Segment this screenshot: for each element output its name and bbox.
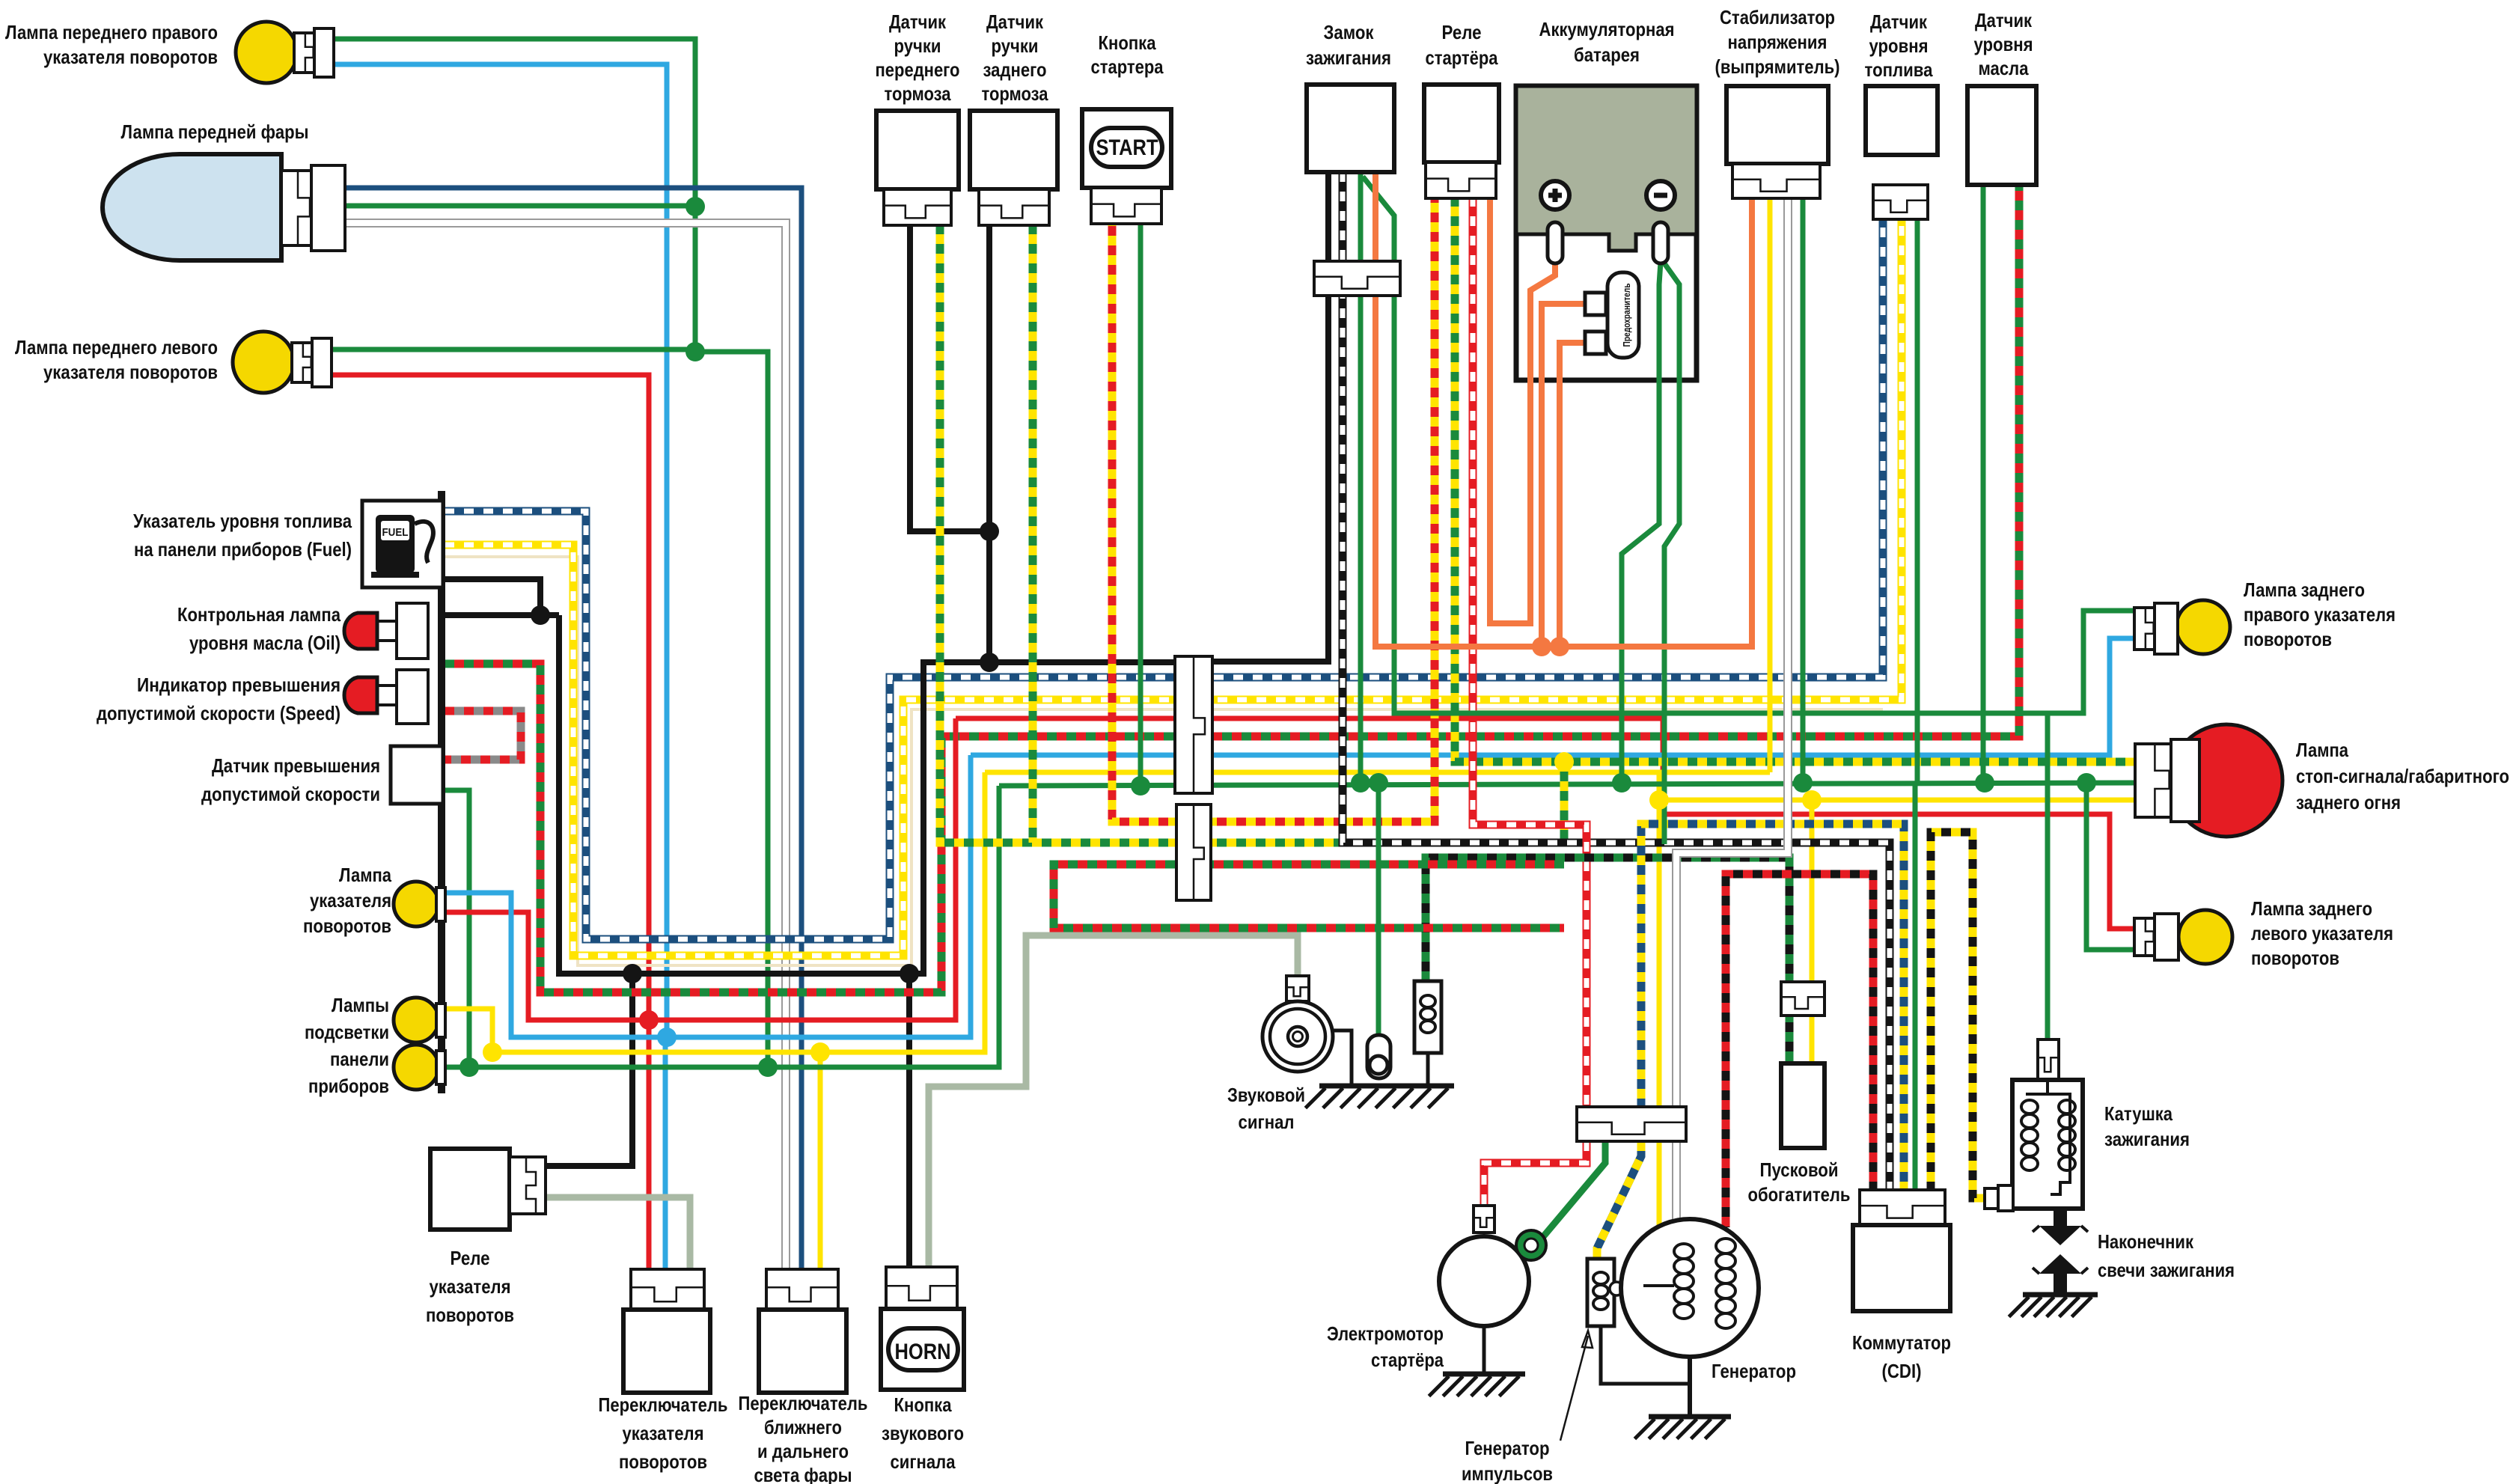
starter relay connector (1426, 162, 1496, 198)
svg-text:Лампа переднего правого: Лампа переднего правого (5, 21, 218, 43)
starter button box (1082, 109, 1171, 188)
wire green ignition lock 2 (1363, 177, 2140, 713)
wire yellow-black striped CDI to ignition coil (1931, 832, 1988, 1198)
wire yellow-green striped relay to stop lamp (1455, 197, 2137, 762)
svg-text:Лампа переднего левого: Лампа переднего левого (15, 336, 218, 358)
node yellow junction tail (1649, 790, 1669, 810)
wire red-white striped starter relay to starter motor (1473, 197, 1587, 1107)
wire orange fuse lower contact (1560, 343, 1585, 647)
oil warning LED (344, 613, 377, 649)
svg-text:Лампы: Лампы (332, 994, 389, 1016)
node green junction horn term (1369, 773, 1388, 793)
svg-text:звукового: звукового (882, 1422, 964, 1444)
wire green to panel band (695, 352, 768, 1067)
wire green ignition lock 1 (1358, 172, 1364, 783)
svg-text:Пусковой: Пусковой (1760, 1158, 1839, 1181)
svg-text:поворотов: поворотов (2244, 628, 2332, 650)
wire orange fuse upper contact (1542, 304, 1585, 647)
wire black fuel gauge feed (445, 579, 540, 615)
horn button box (881, 1309, 964, 1390)
wire yellow-green striped front brake (940, 225, 1564, 843)
battery minus terminal (1646, 181, 1675, 210)
wire black horn button branch (906, 974, 912, 1272)
svg-text:заднего огня: заднего огня (2296, 791, 2401, 813)
svg-text:допустимой скорости: допустимой скорости (201, 783, 380, 805)
relay turn signal connector (510, 1157, 546, 1214)
wire green stabilizer (1801, 197, 1806, 783)
wire light-blue switch feed (663, 1037, 668, 1272)
svg-text:Наконечник: Наконечник (2098, 1230, 2194, 1253)
fuel sensor connector (1873, 185, 1928, 219)
svg-text:сигнал: сигнал (1239, 1111, 1295, 1133)
svg-text:Электромотор: Электромотор (1327, 1322, 1444, 1345)
svg-text:Звуковой: Звуковой (1227, 1084, 1305, 1106)
wire yellow-white striped fuel gauge to fuel sensor (445, 219, 1902, 956)
svg-text:приборов: приборов (308, 1075, 389, 1097)
battery pin plus (1548, 222, 1563, 263)
svg-text:стартёра: стартёра (1371, 1349, 1444, 1371)
svg-text:подсветки: подсветки (305, 1021, 389, 1043)
node yellow-green junction brakes (1554, 752, 1574, 772)
node green junction rear (2077, 773, 2096, 793)
wire green battery 1 (1622, 262, 1661, 783)
svg-text:(CDI): (CDI) (1882, 1360, 1922, 1382)
svg-text:поворотов: поворотов (426, 1304, 514, 1326)
svg-text:Датчик превышения: Датчик превышения (212, 754, 380, 777)
stabilizer connector (1732, 164, 1820, 198)
oil sensor box (1967, 86, 2036, 185)
svg-text:уровня: уровня (1869, 34, 1929, 57)
rear brake sensor box (970, 111, 1057, 189)
svg-text:поворотов: поворотов (619, 1450, 707, 1473)
svg-text:сигнала: сигнала (891, 1450, 956, 1473)
svg-text:Реле: Реле (1442, 21, 1482, 43)
lamp rear left turn signal socket (2134, 918, 2155, 956)
lamp front left turn signal socket (292, 343, 312, 382)
svg-text:топлива: топлива (1865, 58, 1933, 81)
svg-text:и дальнего: и дальнего (757, 1440, 849, 1462)
wire green headlight (343, 204, 695, 209)
wire navy-yellow striped pulse generator to CDI (1641, 824, 1904, 1191)
svg-text:ближнего: ближнего (764, 1416, 842, 1438)
choke box (1781, 1063, 1825, 1148)
svg-text:свечи зажигания: свечи зажигания (2098, 1259, 2235, 1281)
node green junction ignition (1351, 773, 1370, 793)
speed sensor box (391, 746, 443, 804)
svg-text:импульсов: импульсов (1462, 1462, 1553, 1484)
svg-text:стартера: стартера (1091, 55, 1164, 78)
svg-text:Индикатор превышения: Индикатор превышения (137, 674, 341, 696)
wire green horn terminal (1376, 783, 1381, 1040)
wire green front-left turn lamp (330, 347, 697, 352)
node black junction harness (980, 653, 999, 672)
svg-text:FUEL: FUEL (382, 526, 409, 539)
wire black front brake sensor (910, 225, 989, 531)
wire red main bus to rear-left lamp (956, 718, 2140, 929)
turn signal switch box (623, 1310, 710, 1393)
svg-text:Лампа: Лампа (339, 864, 391, 886)
ignition coil winding 2 (2059, 1100, 2075, 1114)
svg-text:указателя: указателя (310, 889, 391, 912)
svg-text:допустимой скорости (Speed): допустимой скорости (Speed) (97, 702, 341, 724)
front brake sensor box (876, 111, 959, 189)
svg-text:Датчик: Датчик (889, 10, 947, 33)
svg-text:заднего: заднего (983, 58, 1047, 81)
wire black rear brake sensor (986, 225, 992, 662)
lamp stop signal socket (2135, 744, 2171, 817)
wire red-gray striped speed sensor loop (445, 711, 521, 760)
starter relay box (1424, 85, 1499, 162)
lamp front right turn signal bulb (236, 22, 297, 83)
ignition coil body (2012, 1080, 2083, 1209)
svg-text:левого указателя: левого указателя (2251, 922, 2393, 944)
node red junction turn (639, 1010, 659, 1030)
svg-text:Генератор: Генератор (1465, 1437, 1550, 1459)
horn top connector (1286, 976, 1309, 1001)
wire orange ignition lock to stabilizer (1375, 172, 1752, 647)
wire red-green striped oil warning loop (445, 183, 2019, 992)
svg-text:Лампа заднего: Лампа заднего (2244, 578, 2365, 601)
node green junction start (1131, 776, 1150, 796)
wire white headlight (343, 223, 786, 1272)
front brake sensor connector (884, 189, 951, 225)
generator coil 1 (1674, 1244, 1694, 1259)
node green junction stabilizer (1793, 773, 1813, 793)
wire black main ground harness (559, 615, 1175, 974)
lamp rear right turn signal bulb (2176, 600, 2230, 654)
wire navy-white striped fuel gauge to fuel sensor (445, 219, 1883, 939)
svg-text:обогатитель: обогатитель (1748, 1183, 1851, 1206)
svg-text:Датчик: Датчик (1870, 10, 1928, 33)
wire black-green striped horn resistor to choke (1426, 858, 1789, 1063)
wire yellow stabilizer drop (1768, 197, 1773, 772)
svg-text:Указатель уровня топлива: Указатель уровня топлива (133, 510, 352, 532)
node green junction battery (1612, 773, 1631, 793)
svg-text:указателя: указателя (430, 1275, 511, 1298)
starter motor body (1439, 1236, 1529, 1326)
wire navy headlight high beam (343, 188, 801, 1272)
svg-text:ручки: ручки (894, 34, 941, 57)
wire green CDI harness (1603, 1107, 1608, 1141)
starter motor ring terminal (1516, 1230, 1546, 1260)
node orange junction fuse (1550, 637, 1569, 656)
svg-text:указателя поворотов: указателя поворотов (43, 46, 218, 68)
wire yellow bus drop (1657, 772, 1662, 1107)
wire red-black striped CDI to generator (1726, 874, 1873, 1227)
lamp headlight socket (281, 171, 311, 245)
ignition coil winding 1 (2021, 1100, 2038, 1114)
node green junction oil (1975, 773, 1994, 793)
svg-text:Стабилизатор: Стабилизатор (1720, 6, 1835, 28)
svg-text:HORN: HORN (895, 1340, 951, 1364)
svg-text:Замок: Замок (1324, 21, 1375, 43)
svg-text:правого указателя: правого указателя (2244, 603, 2396, 626)
CDI box (1853, 1225, 1950, 1311)
svg-text:зажигания: зажигания (1306, 46, 1391, 69)
wire green fuel sensor (1915, 219, 1920, 783)
wire green starter motor ring lead (1542, 1141, 1605, 1239)
wire yellow main bus (985, 770, 1770, 775)
node yellow junction choke (1802, 790, 1822, 810)
generator body (1621, 1219, 1759, 1357)
wire black oil lamp feed (445, 612, 559, 618)
node yellow junction panel (483, 1042, 502, 1062)
svg-text:панели: панели (330, 1048, 389, 1070)
turn signal switch connector (631, 1269, 704, 1310)
svg-text:Контрольная лампа: Контрольная лампа (177, 603, 341, 626)
lamp turn indicator panel bulb (394, 882, 439, 926)
wire red-yellow striped starter button to relay (1112, 197, 1435, 822)
svg-text:Предохранитель: Предохранитель (1621, 284, 1632, 347)
svg-text:Коммутатор: Коммутатор (1852, 1331, 1951, 1354)
lamp rear left turn signal bulb (2178, 910, 2232, 964)
ignition lock box (1307, 85, 1394, 172)
speed LED holder (397, 670, 428, 724)
wire green panel illumination (445, 786, 999, 1067)
ring terminal (1367, 1035, 1390, 1078)
svg-text:Лампа: Лампа (2296, 739, 2348, 761)
ignition coil top connector (2038, 1039, 2059, 1080)
svg-text:переднего: переднего (876, 58, 960, 81)
wire green rear-right lamp to ignition coil (2045, 713, 2051, 1039)
generator ground (1688, 1357, 1692, 1417)
horn button connector (886, 1267, 957, 1309)
svg-text:Переключатель: Переключатель (739, 1392, 868, 1414)
ignition lock connector (1314, 261, 1400, 296)
oil LED holder (397, 603, 428, 659)
lamp front left turn signal bulb (233, 332, 294, 393)
wire white stabilizer to generator (1676, 197, 1788, 1107)
starter motor connector (1474, 1206, 1494, 1233)
svg-text:Лампа передней фары: Лампа передней фары (121, 120, 309, 143)
lamp stop signal bulb (2170, 724, 2283, 837)
svg-text:ручки: ручки (992, 34, 1039, 57)
pulse generator ground link (1601, 1326, 1690, 1384)
node black junction horn (900, 964, 919, 983)
node black junction brake (980, 522, 999, 541)
node yellow junction switch (810, 1042, 830, 1062)
wire sage relay to turn switch (546, 1197, 690, 1272)
wire red-green striped harness branch (1054, 864, 1564, 928)
svg-text:на панели приборов (Fuel): на панели приборов (Fuel) (134, 538, 352, 561)
generator coil 2 (1716, 1239, 1735, 1254)
svg-text:тормоза: тормоза (885, 82, 951, 105)
node black junction fuel (531, 605, 550, 625)
lamp panel illumination bulb 1 (394, 998, 439, 1042)
svg-text:указателя поворотов: указателя поворотов (43, 361, 218, 383)
svg-text:Кнопка: Кнопка (1099, 31, 1156, 54)
svg-text:START: START (1096, 135, 1158, 160)
wire yellow generator (1657, 1141, 1662, 1227)
choke connector (1781, 982, 1825, 1016)
harness connector engine (1577, 1107, 1686, 1141)
wire red front-left turn lamp (330, 375, 649, 1272)
battery plus terminal (1541, 181, 1569, 210)
svg-text:Датчик: Датчик (986, 10, 1044, 33)
svg-text:Переключатель: Переключатель (599, 1393, 728, 1416)
svg-text:масла: масла (1979, 57, 2029, 79)
spark plug arrow down (2039, 1206, 2081, 1245)
headlight switch connector (766, 1269, 838, 1310)
ground horn (1319, 1084, 1454, 1089)
wire green speed sensor (445, 790, 469, 1067)
lamp panel illumination bulb 2 (394, 1045, 439, 1090)
horn resistor (1414, 981, 1441, 1053)
node black junction relay (623, 964, 642, 983)
headlight switch box (759, 1310, 846, 1393)
ignition coil side connector (1985, 1188, 1998, 1209)
harness connector upper (1175, 656, 1212, 793)
lamp headlight bulb (103, 154, 281, 260)
svg-text:Кнопка: Кнопка (894, 1393, 952, 1416)
fuel gauge box (362, 501, 443, 587)
svg-text:поворотов: поворотов (303, 914, 391, 937)
wire green front-right turn lamp to junction (332, 39, 695, 352)
wire green battery 2 (1661, 258, 1679, 844)
lamp rear right turn signal socket (2134, 608, 2155, 650)
wire cream companion fuel (445, 557, 1883, 965)
wire green oil sensor (1981, 183, 1986, 783)
starter motor ground (1483, 1326, 1486, 1374)
rear brake sensor connector (979, 189, 1049, 225)
battery pin minus (1653, 222, 1668, 263)
svg-text:Катушка: Катушка (2104, 1102, 2173, 1125)
wire black relay branch (546, 974, 632, 1166)
pulse generator box (1587, 1259, 1614, 1326)
wire orange battery plus to starter relay (1490, 197, 1555, 623)
wire yellow panel illumination (445, 772, 985, 1052)
wire yellow choke branch (1810, 800, 1815, 1063)
node orange junction fuse2 (1532, 637, 1551, 656)
fuse contacts (1585, 293, 1606, 315)
ground spark plug (2023, 1292, 2098, 1298)
svg-text:батарея: батарея (1574, 43, 1640, 66)
spark plug arrow up (2039, 1254, 2081, 1295)
wire green starter button (1138, 197, 1144, 786)
svg-text:уровня: уровня (1974, 33, 2033, 55)
relay turn signal box (430, 1149, 510, 1230)
wire yellow headlight switch feed (818, 1052, 823, 1272)
wire light-blue main bus to rear-right lamp (971, 638, 2140, 755)
wire light-blue turn indicator band (445, 755, 971, 1037)
node green junction front lamps 2 (686, 342, 705, 361)
svg-text:света фары: света фары (754, 1464, 852, 1484)
svg-text:Аккумуляторная: Аккумуляторная (1539, 18, 1675, 40)
wire black ignition lock to connector (1212, 172, 1328, 662)
svg-text:указателя: указателя (623, 1422, 704, 1444)
stabilizer box (1726, 86, 1828, 164)
wire green CDI (1913, 783, 1918, 1191)
svg-text:(выпрямитель): (выпрямитель) (1715, 55, 1840, 78)
speed warning LED (344, 677, 377, 713)
wire sage horn button to horn (929, 935, 1298, 1272)
node blue junction turn (657, 1027, 677, 1047)
fuel sensor box (1866, 86, 1938, 155)
CDI connector (1860, 1190, 1945, 1225)
svg-text:поворотов: поворотов (2251, 947, 2339, 969)
wire black-white striped ignition to CDI (1343, 172, 1890, 1191)
wire green rear-left lamp (2086, 783, 2140, 950)
lamp front right turn signal socket (294, 33, 314, 73)
wire red turn indicator band (445, 718, 956, 1020)
node green junction front lamps 1 (686, 197, 705, 216)
wire yellow tail segment to stop lamp (1659, 798, 2137, 803)
svg-text:уровня масла (Oil): уровня масла (Oil) (189, 632, 341, 654)
fuse body (1607, 272, 1639, 358)
svg-text:напряжения: напряжения (1728, 31, 1828, 53)
svg-text:Генератор: Генератор (1712, 1360, 1796, 1382)
node green junction panel 2 (758, 1057, 778, 1077)
svg-text:зажигания: зажигания (2104, 1128, 2190, 1150)
svg-text:стартёра: стартёра (1426, 46, 1498, 69)
svg-text:Реле: Реле (451, 1247, 490, 1269)
horn body (1262, 1001, 1333, 1072)
horn bracket to ground (1332, 1030, 1352, 1086)
svg-text:тормоза: тормоза (982, 82, 1048, 105)
node green junction panel 1 (459, 1057, 479, 1077)
harness connector lower (1176, 804, 1211, 900)
fuel gauge icon (376, 515, 415, 573)
wire yellow-green striped rear brake (1029, 225, 1037, 843)
svg-text:стоп-сигнала/габаритного: стоп-сигнала/габаритного (2296, 765, 2509, 787)
wire green main bus to stop lamp (999, 783, 2137, 786)
wire light-blue front-right turn lamp (332, 64, 667, 1037)
svg-text:Датчик: Датчик (1975, 9, 2033, 31)
starter button connector (1091, 188, 1161, 224)
svg-text:Лампа заднего: Лампа заднего (2251, 897, 2372, 920)
instrument panel bar (438, 491, 445, 1093)
